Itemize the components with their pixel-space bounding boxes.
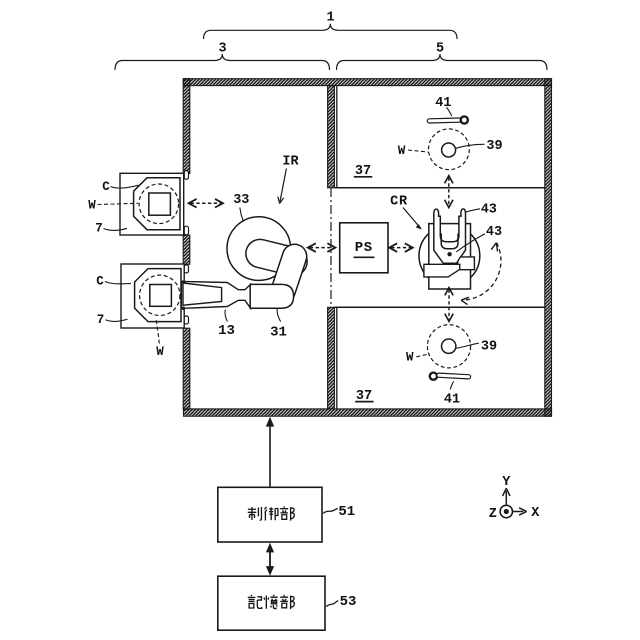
cassette C bottom: octagon <box>135 269 181 322</box>
wall inner lower segment <box>328 307 335 409</box>
kanji bu (part) 2 <box>280 595 294 609</box>
label W top <box>88 198 138 212</box>
top chamber: label W <box>398 144 428 158</box>
svg-text:43: 43 <box>481 203 497 218</box>
svg-text:C: C <box>96 274 104 288</box>
chamber 37 top walls <box>334 86 544 188</box>
wall right <box>545 79 552 417</box>
kanji sei (control) <box>248 507 262 520</box>
robot hand outline 13 <box>181 281 250 308</box>
axis Z label <box>489 507 497 522</box>
node centerline dash-dot <box>330 188 332 307</box>
bottom chamber: stage circle 39 <box>442 339 498 355</box>
CR lower-left block <box>424 264 460 277</box>
wafer W bottom station: dashed circle <box>140 275 180 315</box>
label 43 lower <box>456 225 502 252</box>
label 51 <box>323 504 355 520</box>
arrow robot to PS <box>308 243 336 252</box>
wafer W top station: dashed circle <box>139 184 179 224</box>
label 53 <box>326 594 356 610</box>
svg-text:W: W <box>406 351 414 365</box>
top station square <box>149 193 171 215</box>
svg-text:PS: PS <box>355 240 373 256</box>
label 7 top <box>95 221 127 235</box>
svg-text:41: 41 <box>444 393 460 408</box>
cassette station 7 top: outer box <box>120 173 184 235</box>
wall inner upper segment <box>328 86 335 188</box>
svg-text:IR: IR <box>282 154 299 169</box>
robot fork blade <box>183 283 222 305</box>
top chamber: label 37 <box>354 164 373 179</box>
top chamber: wafer W dashed circle <box>429 129 470 170</box>
svg-text:C: C <box>102 180 110 194</box>
svg-text:7: 7 <box>97 313 105 327</box>
svg-text:CR: CR <box>390 194 408 209</box>
robot wrist capsule <box>250 284 293 308</box>
CR circle <box>419 225 480 286</box>
svg-text:41: 41 <box>435 96 451 111</box>
label 7 bottom <box>97 313 128 327</box>
CR yoke with prongs 43 <box>434 209 466 263</box>
top chamber: pin 41 <box>427 96 468 124</box>
label C bottom <box>96 274 131 288</box>
cassette C top: octagon <box>134 178 180 230</box>
label 43 upper <box>465 203 497 218</box>
robot IR body circle 33 <box>227 217 291 281</box>
svg-text:X: X <box>531 506 540 521</box>
label 31 <box>270 308 287 341</box>
kanji ki (record) <box>248 595 262 608</box>
controller box 51 <box>218 487 322 542</box>
svg-text:39: 39 <box>481 340 497 355</box>
svg-text:43: 43 <box>486 225 502 240</box>
memory box 53 <box>218 576 325 630</box>
wall left lower segment <box>183 328 190 409</box>
bottom chamber: label 37 <box>355 389 373 404</box>
svg-text:31: 31 <box>270 325 287 341</box>
bottom station square <box>150 285 172 307</box>
label CR with arrow <box>390 194 422 229</box>
bottom chamber: label W <box>406 351 429 365</box>
label IR with arrow <box>278 154 300 203</box>
svg-text:W: W <box>88 198 96 212</box>
coordinate axes origin <box>500 505 512 517</box>
double arrow controller-memory <box>266 543 274 576</box>
svg-text:51: 51 <box>338 504 355 520</box>
svg-text:Z: Z <box>489 507 497 522</box>
door post stubs top station <box>184 171 188 235</box>
label C top <box>102 180 138 194</box>
arrow enclosure to controller <box>266 417 274 487</box>
wall left middle segment <box>183 235 190 264</box>
chamber 37 bottom walls <box>334 307 544 409</box>
kanji oku (memory) <box>264 595 278 609</box>
svg-text:13: 13 <box>218 323 235 339</box>
svg-text:7: 7 <box>95 221 103 235</box>
CR center dot <box>447 252 451 256</box>
kanji bu (part) 1 <box>280 506 294 520</box>
kanji gyo (honorific) <box>264 507 277 520</box>
svg-text:53: 53 <box>340 594 357 610</box>
junction dots at wall opening <box>182 280 186 310</box>
door post stubs bottom station <box>184 265 188 324</box>
top chamber: stage circle 39 <box>442 139 503 157</box>
robot upper arm link <box>243 236 310 278</box>
arrow top chamber to CR <box>445 176 453 208</box>
arrow PS to CR <box>389 243 413 252</box>
brace 5 <box>337 41 548 70</box>
arrow CR to bottom chamber <box>445 288 453 322</box>
CR body rect <box>429 224 471 289</box>
axis Y <box>502 475 511 504</box>
svg-text:W: W <box>156 345 164 359</box>
label 33 <box>233 193 249 222</box>
wall bottom <box>184 409 552 416</box>
CR rotation arc arrow <box>461 243 501 305</box>
bottom chamber: wafer W dashed circle <box>427 325 470 368</box>
axis X <box>513 506 540 521</box>
robot forearm link 31 <box>268 241 310 306</box>
svg-text:1: 1 <box>326 11 334 26</box>
wall top <box>184 79 552 86</box>
brace 3 <box>115 41 330 70</box>
svg-text:3: 3 <box>218 41 226 56</box>
brace 1 <box>204 11 458 40</box>
svg-text:33: 33 <box>233 193 249 208</box>
svg-text:5: 5 <box>436 41 444 56</box>
label 13 <box>218 310 235 340</box>
cassette station 7 bottom: outer box <box>121 264 184 328</box>
svg-text:W: W <box>398 144 406 158</box>
wall left upper segment <box>183 79 190 174</box>
svg-text:Y: Y <box>502 475 511 490</box>
arrow top station to robot <box>189 199 223 208</box>
label W bottom <box>156 319 164 359</box>
svg-text:39: 39 <box>486 139 502 154</box>
PS box <box>340 223 388 273</box>
CR right block <box>458 257 475 270</box>
bottom chamber: pin 41 <box>430 373 471 408</box>
